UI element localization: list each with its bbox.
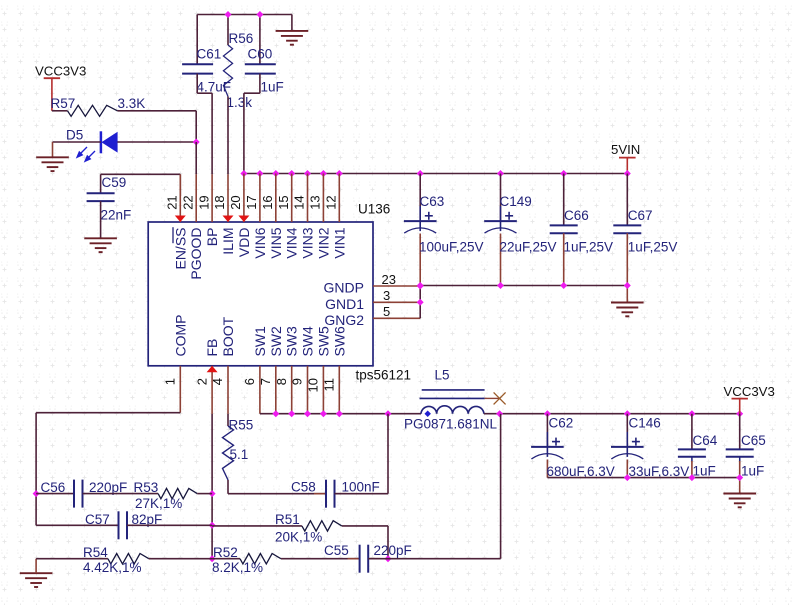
svg-text:VIN1: VIN1 <box>331 227 347 258</box>
diode D5 LED <box>66 128 118 162</box>
junction dots SW rail <box>272 410 391 417</box>
svg-text:21: 21 <box>165 195 180 209</box>
svg-text:1uF: 1uF <box>741 464 764 479</box>
power flag 5VIN <box>611 142 640 174</box>
svg-text:BOOT: BOOT <box>220 316 236 356</box>
capacitor C61 <box>182 15 231 95</box>
svg-text:C67: C67 <box>628 208 653 223</box>
svg-text:C62: C62 <box>549 416 574 431</box>
wire input gnd rail <box>420 286 627 302</box>
power flag VCC3V3 left <box>35 64 86 111</box>
ground top right <box>276 31 309 45</box>
pin names top <box>172 227 347 279</box>
svg-text:EN/SS: EN/SS <box>172 228 188 270</box>
svg-text:C63: C63 <box>420 194 445 209</box>
capacitor C67 1uF <box>613 174 677 286</box>
svg-text:220pF: 220pF <box>374 543 412 558</box>
junction dots gnd rail <box>417 282 631 289</box>
svg-text:C61: C61 <box>197 47 222 62</box>
wire SW rail <box>260 413 421 415</box>
ground input caps <box>611 303 644 317</box>
svg-text:2: 2 <box>194 378 209 385</box>
svg-text:R57: R57 <box>51 96 76 111</box>
wire output rail VCC3V3 <box>484 413 740 415</box>
wire R55 to C58 <box>228 480 326 494</box>
svg-text:680uF,6.3V: 680uF,6.3V <box>547 464 615 479</box>
capacitor C63 100uF polarized <box>404 174 484 286</box>
capacitor C66 1uF <box>550 174 613 286</box>
junction dots gnd pins <box>417 283 424 306</box>
junction node COMP/C56 <box>33 490 40 497</box>
svg-text:C64: C64 <box>693 433 718 448</box>
op-amp U136 tps56121 body <box>148 202 411 383</box>
svg-text:VIN5: VIN5 <box>268 227 284 258</box>
resistor R56 <box>223 15 253 111</box>
svg-text:D5: D5 <box>66 128 83 143</box>
svg-text:100uF,25V: 100uF,25V <box>419 240 484 255</box>
wire D5 cathode to ground <box>53 142 101 157</box>
capacitor C62 680uF polarized <box>531 414 615 479</box>
svg-text:17: 17 <box>244 195 259 209</box>
ground C59 <box>84 238 117 252</box>
svg-text:1uF: 1uF <box>261 80 284 95</box>
power flag VCC3V3 right <box>724 384 775 414</box>
svg-text:20: 20 <box>228 195 243 209</box>
svg-text:VCC3V3: VCC3V3 <box>724 384 775 399</box>
svg-text:1uF,25V: 1uF,25V <box>628 240 678 255</box>
wire gnd pins tie <box>419 286 421 318</box>
svg-text:C66: C66 <box>564 208 589 223</box>
junction node PGOOD/D5 <box>193 139 200 146</box>
svg-text:FB: FB <box>204 339 220 357</box>
svg-text:12: 12 <box>324 195 339 209</box>
svg-text:10: 10 <box>306 378 321 392</box>
svg-text:11: 11 <box>322 378 337 392</box>
wire C58 to SW rail <box>335 414 389 494</box>
pin numbers right 23 3 5 <box>382 272 396 319</box>
svg-text:27K,1%: 27K,1% <box>135 496 182 511</box>
svg-text:C58: C58 <box>291 480 316 495</box>
junction dots VIN rail <box>240 170 630 177</box>
wire VIN rail <box>244 173 627 175</box>
svg-text:SW4: SW4 <box>300 326 316 357</box>
pin stubs right GNDP GND1 GNG2 <box>373 286 420 318</box>
svg-text:C56: C56 <box>41 480 66 495</box>
no-ERC X mark at L5 <box>485 392 506 404</box>
resistor R54 4.42K <box>36 545 212 575</box>
svg-text:SW3: SW3 <box>284 326 300 357</box>
wire C55 to output node <box>368 414 500 559</box>
junction dots output rail <box>496 410 743 417</box>
svg-text:PG0871.681NL: PG0871.681NL <box>404 417 498 432</box>
svg-text:14: 14 <box>292 195 307 209</box>
capacitor C65 1uF <box>726 414 766 479</box>
wire C61 to BP pin jog <box>197 74 212 175</box>
svg-text:R56: R56 <box>229 31 254 46</box>
wire C59 to EN/SS pin 21 <box>101 174 181 196</box>
svg-text:3.3K: 3.3K <box>118 96 146 111</box>
svg-text:R52: R52 <box>213 545 238 560</box>
svg-text:R51: R51 <box>275 512 300 527</box>
wire PGOOD junction to pin 22 <box>195 142 197 174</box>
junction dots top rail <box>225 11 264 18</box>
svg-text:9: 9 <box>290 378 305 385</box>
svg-text:1.3k: 1.3k <box>227 95 253 110</box>
svg-text:R53: R53 <box>134 480 159 495</box>
svg-text:1: 1 <box>163 378 178 385</box>
svg-text:PGOOD: PGOOD <box>188 228 204 280</box>
svg-text:33uF,6.3V: 33uF,6.3V <box>629 464 690 479</box>
svg-text:VIN6: VIN6 <box>252 227 268 258</box>
svg-text:VCC3V3: VCC3V3 <box>35 64 86 79</box>
wire R57 to PGOOD net <box>117 111 196 142</box>
red input arrows pins 21 18 20 <box>175 216 250 223</box>
svg-text:22: 22 <box>180 195 195 209</box>
capacitor C149 22uF polarized <box>484 174 556 286</box>
resistor R52 8.2K <box>212 545 360 575</box>
pin names right <box>324 280 365 329</box>
svg-text:1uF,25V: 1uF,25V <box>564 240 614 255</box>
svg-text:5: 5 <box>383 304 390 319</box>
svg-text:GNG2: GNG2 <box>324 312 364 328</box>
wire R56 to ILIM <box>227 97 229 175</box>
wire COMP pin down-left <box>36 413 180 526</box>
svg-text:SW6: SW6 <box>331 326 347 357</box>
svg-text:23: 23 <box>382 272 396 287</box>
pin names bottom <box>172 315 347 357</box>
junction dots output gnd <box>624 474 743 481</box>
wire D5 anode to junction <box>117 141 196 143</box>
svg-text:8: 8 <box>274 378 289 385</box>
junction dots FB net <box>209 490 216 562</box>
svg-text:tps56121: tps56121 <box>356 368 412 383</box>
svg-text:SW1: SW1 <box>252 326 268 357</box>
svg-text:15: 15 <box>276 195 291 209</box>
svg-text:220pF: 220pF <box>89 480 127 495</box>
capacitor C57 82pF <box>36 511 212 539</box>
svg-text:SW2: SW2 <box>268 326 284 357</box>
svg-text:VIN2: VIN2 <box>315 227 331 258</box>
svg-text:22uF,25V: 22uF,25V <box>500 240 557 255</box>
inductor L5 PG0871.681NL <box>404 368 498 432</box>
svg-text:L5: L5 <box>435 368 450 383</box>
svg-text:ILIM: ILIM <box>220 228 236 255</box>
pin numbers top <box>165 195 339 209</box>
svg-text:C146: C146 <box>629 416 661 431</box>
svg-text:8.2K,1%: 8.2K,1% <box>212 560 263 575</box>
wire output gnd rail <box>547 478 739 493</box>
ground D5 <box>36 157 69 171</box>
svg-text:C65: C65 <box>741 433 766 448</box>
resistor R51 20K <box>212 512 388 559</box>
svg-text:SW5: SW5 <box>315 326 331 357</box>
svg-text:19: 19 <box>196 195 211 209</box>
svg-text:BP: BP <box>204 228 220 247</box>
capacitor C59 22nF <box>87 174 132 237</box>
svg-text:6: 6 <box>242 378 257 385</box>
resistor R57 3.3K <box>51 96 146 116</box>
svg-text:5.1: 5.1 <box>230 447 249 462</box>
ground output caps <box>723 494 756 508</box>
svg-text:R55: R55 <box>229 418 254 433</box>
svg-text:C59: C59 <box>102 175 127 190</box>
svg-text:16: 16 <box>260 195 275 209</box>
capacitor C56 220pF <box>36 480 127 508</box>
pin numbers bottom <box>163 378 337 392</box>
wire top rail node BP/VDD filter <box>197 15 292 31</box>
svg-text:VIN3: VIN3 <box>300 227 316 258</box>
svg-text:13: 13 <box>308 195 323 209</box>
svg-text:3: 3 <box>383 288 390 303</box>
resistor R53 27K <box>83 480 213 511</box>
svg-text:4.42K,1%: 4.42K,1% <box>83 560 142 575</box>
svg-text:R54: R54 <box>83 545 108 560</box>
ground compensation <box>20 559 53 587</box>
svg-text:1uF: 1uF <box>693 464 716 479</box>
svg-text:18: 18 <box>212 195 227 209</box>
svg-text:GND1: GND1 <box>325 296 364 312</box>
svg-text:VIN4: VIN4 <box>284 227 300 258</box>
svg-text:GNDP: GNDP <box>324 280 364 296</box>
svg-text:5VIN: 5VIN <box>611 142 640 157</box>
capacitor C55 220pF <box>324 543 412 573</box>
svg-text:C60: C60 <box>248 47 273 62</box>
capacitor C64 1uF <box>678 414 718 479</box>
junction node C55/R51 <box>385 555 392 562</box>
svg-text:22nF: 22nF <box>101 208 132 223</box>
svg-text:COMP: COMP <box>172 315 188 357</box>
capacitor C60 <box>245 15 284 95</box>
svg-text:C149: C149 <box>500 194 532 209</box>
svg-text:C55: C55 <box>324 543 349 558</box>
svg-text:100nF: 100nF <box>342 480 380 495</box>
svg-text:C57: C57 <box>85 512 110 527</box>
svg-text:VDD: VDD <box>236 228 252 258</box>
resistor R55 5.1 <box>223 418 254 481</box>
svg-text:4: 4 <box>210 378 225 385</box>
wire BOOT pin to R55 <box>227 414 229 426</box>
svg-text:U136: U136 <box>358 202 390 217</box>
wire C60 to VDD jog <box>244 74 260 174</box>
red arrow pin 2 FB <box>207 366 218 373</box>
svg-text:20K,1%: 20K,1% <box>275 530 322 545</box>
capacitor C146 33uF polarized <box>611 414 689 479</box>
pin stubs bottom pins <box>180 366 339 414</box>
wire FB pin down <box>211 414 213 559</box>
capacitor C58 100nF <box>291 480 380 508</box>
svg-text:7: 7 <box>258 378 273 385</box>
pin stubs top pins <box>180 174 339 223</box>
